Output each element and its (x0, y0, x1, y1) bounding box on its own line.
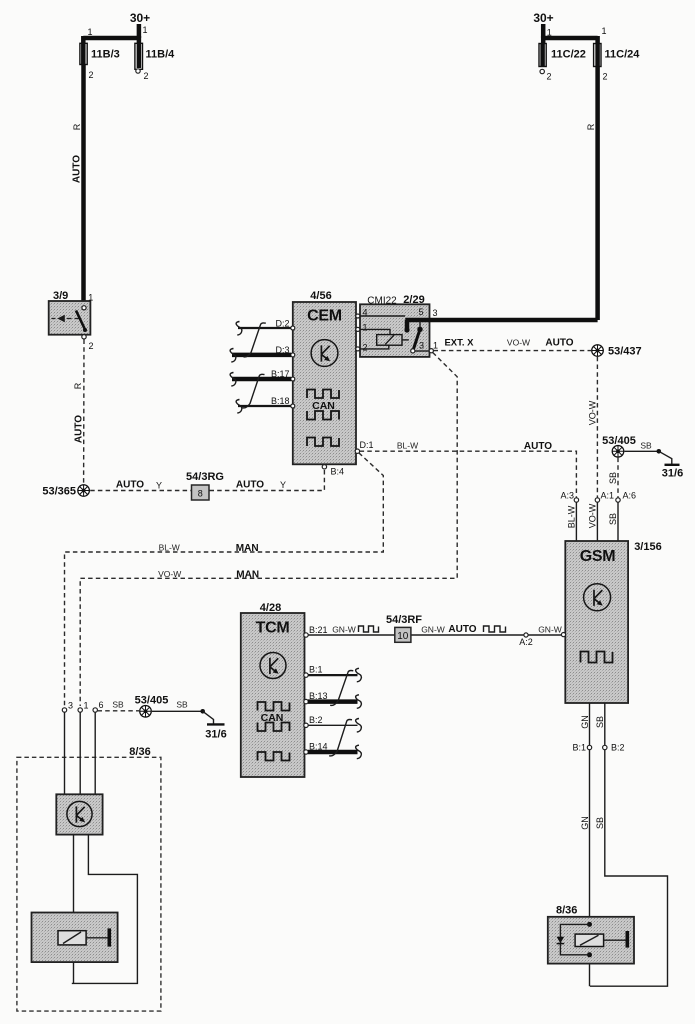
svg-text:8/36: 8/36 (556, 905, 577, 917)
power feed 30+ label (right) (533, 11, 553, 25)
svg-text:B:1: B:1 (572, 743, 586, 753)
svg-text:Y: Y (280, 480, 286, 490)
svg-text:R: R (73, 382, 83, 389)
wire VO-W MAN dashed from relay EXT. X via corner to connector pin 1 (80, 353, 457, 707)
label AUTO on dashed wire (73, 415, 84, 443)
svg-text:CEM: CEM (307, 308, 342, 325)
ground lead 31/6 (upper right) (659, 451, 683, 479)
svg-text:2: 2 (547, 72, 552, 82)
wire-end curl at B:2 (356, 719, 362, 733)
svg-text:GN: GN (580, 715, 590, 729)
relay coil (377, 335, 402, 346)
wire at CEM B:18 (238, 405, 291, 407)
connector pin 6 (to 8/36) (93, 700, 104, 712)
wire BL-W MAN dashed from CEM D:1 via corner to connector pin 3 (65, 453, 384, 706)
inline square wave symbol on B:21 wire (right) (484, 626, 506, 632)
relay fixed contact stub (terminal 5) (404, 320, 409, 333)
inline square wave symbol on B:21 wire (left) (359, 626, 379, 632)
solenoid plunger bar (right 8/36) (604, 931, 628, 948)
svg-text:VO-W: VO-W (158, 569, 181, 579)
solenoid coil terminal junction (top) (587, 922, 592, 927)
TCM control-unit symbol (circled K) (260, 653, 286, 679)
svg-text:3/156: 3/156 (634, 541, 662, 553)
svg-text:R: R (72, 123, 82, 130)
twisted-pair marker for D:2/D:3 (244, 323, 266, 357)
splice 53/405 (lower) (135, 695, 169, 718)
relay coil-armature link (402, 339, 409, 341)
TCM CAN square wave upper (258, 702, 290, 711)
wire stub into fuse 11B/3 (81, 36, 86, 44)
svg-text:1: 1 (84, 701, 89, 711)
svg-text:GN-W: GN-W (421, 624, 445, 634)
twisted-pair marker for B:1/B:13 (330, 671, 353, 706)
label GN-W (right of 54/3RF) (421, 624, 445, 634)
control module TCM body (241, 613, 305, 777)
svg-text:6: 6 (99, 700, 104, 710)
svg-text:30+: 30+ (533, 11, 553, 25)
wire GN-W from TCM B:21 to GSM A:2 (308, 634, 561, 636)
wire 30+ stub to bus (left) (137, 24, 142, 38)
svg-text:54/3RG: 54/3RG (186, 471, 224, 483)
svg-text:SB: SB (112, 700, 124, 710)
relay 2/29 body (360, 304, 430, 357)
svg-text:TCM: TCM (256, 620, 290, 637)
CEM pin B:4 (322, 465, 344, 477)
svg-text:AUTO: AUTO (524, 441, 552, 452)
svg-text:B:2: B:2 (309, 715, 323, 725)
svg-text:MAN: MAN (236, 570, 259, 581)
svg-text:5: 5 (419, 307, 424, 317)
wire at TCM B:1 (308, 674, 358, 676)
svg-text:A:1: A:1 (601, 491, 615, 501)
ground lead 31/6 (lower left) (203, 711, 227, 740)
GSM name text (580, 548, 616, 565)
power feed 30+ label (left) (130, 11, 150, 25)
diode (557, 937, 565, 944)
TCM pin B:13 (304, 691, 328, 704)
wire-end curl at B:13 (356, 695, 362, 709)
svg-text:B:4: B:4 (331, 467, 345, 477)
GSM pin A:3 (560, 491, 578, 503)
svg-text:SB: SB (595, 716, 605, 728)
switch 3/9 pin 2 (82, 335, 94, 351)
svg-text:SB: SB (640, 441, 652, 451)
svg-text:A:6: A:6 (623, 491, 637, 501)
svg-text:2: 2 (89, 70, 94, 80)
svg-text:3: 3 (68, 701, 73, 711)
svg-text:AUTO: AUTO (545, 338, 573, 349)
wire BL-W from A:3 into GSM (567, 502, 577, 541)
relay contact output line to pin 3 (415, 350, 430, 352)
wire-end curl at B:14 (356, 745, 362, 759)
GSM left pin circle (A:2) (561, 633, 565, 637)
wire stub into fuse 11C/22 (541, 36, 546, 44)
CEM name text (307, 308, 342, 325)
wire at TCM B:13 (thick) (308, 699, 358, 704)
wire AUTO Y dashed from 54/3RG to CEM B:4 (210, 470, 325, 491)
label GN-W (at GSM) (538, 624, 562, 634)
control module GSM 3/156 designator (634, 541, 662, 553)
svg-text:4: 4 (363, 308, 368, 318)
wire GN from B:1 down to solenoid 8/36 (580, 750, 590, 987)
switch 3/9 actuator arrow (52, 315, 79, 322)
svg-text:SB: SB (595, 817, 605, 829)
wire EXT. X VO-W AUTO dashed to splice 53/437 (434, 337, 592, 350)
connector 54/3RG (186, 471, 224, 500)
label GN-W (left of 54/3RF) (332, 624, 356, 634)
shifter module 8/36 designator (left) (129, 746, 150, 758)
wire at CEM D:3 (thick) (232, 353, 291, 358)
svg-text:AUTO: AUTO (73, 415, 84, 443)
svg-text:1: 1 (547, 28, 552, 38)
label R on left feed wire (72, 123, 82, 130)
GSM pin A:1 (595, 491, 614, 503)
wire SB from GSM to pin B:2 (595, 703, 605, 745)
junction dot at ground lead (upper right) (657, 449, 662, 454)
junction dot at ground lead (200, 709, 205, 714)
wire SB from B:2 down and around to solenoid 8/36 (590, 750, 668, 987)
svg-text:Y: Y (156, 480, 162, 490)
svg-text:11B/3: 11B/3 (91, 48, 120, 60)
svg-text:SB: SB (608, 472, 618, 484)
svg-text:10: 10 (397, 631, 409, 642)
svg-text:1: 1 (602, 26, 607, 36)
control module CEM 4/56 designator (310, 290, 331, 302)
TCM square wave lower (258, 752, 290, 761)
relay external pin numbers (433, 308, 439, 351)
TCM name text (256, 620, 290, 637)
svg-text:11C/24: 11C/24 (605, 49, 641, 61)
CEM CAN square wave upper (307, 390, 339, 399)
svg-text:GN-W: GN-W (538, 624, 562, 634)
solenoid coil (right 8/36) (575, 934, 604, 946)
CEM control-unit symbol (circled K) (311, 340, 338, 367)
CEM CAN label (312, 400, 335, 412)
svg-text:2: 2 (363, 343, 368, 353)
connector pin 1 (to 8/36) (78, 701, 89, 713)
svg-text:3: 3 (433, 308, 438, 318)
svg-text:53/437: 53/437 (608, 346, 642, 358)
shift lock plunger bar (86, 928, 109, 946)
shift lock solenoid box (32, 913, 118, 963)
svg-text:GN: GN (580, 816, 590, 830)
svg-text:53/365: 53/365 (42, 486, 76, 498)
svg-text:BL-W: BL-W (397, 441, 418, 451)
solenoid 8/36 body (right) (548, 917, 634, 964)
twisted-pair marker for B:2/B:14 (329, 720, 352, 756)
svg-text:BL-W: BL-W (567, 505, 577, 528)
svg-text:AUTO: AUTO (448, 624, 476, 635)
GSM control-unit symbol (circled K) (584, 584, 611, 611)
svg-text:VO-W: VO-W (587, 400, 597, 425)
svg-text:8/36: 8/36 (129, 746, 150, 758)
wire R AUTO dashed from 3/9 pin 2 to splice 53/365 (83, 340, 85, 485)
svg-text:4/56: 4/56 (310, 290, 331, 302)
svg-text:MAN: MAN (236, 543, 259, 554)
shifter module 8/36 dashed enclosure (17, 757, 161, 1011)
svg-text:AUTO: AUTO (116, 479, 144, 490)
wire SB dashed from 53/405 down to GSM A:6 (608, 458, 618, 498)
relay 2/29 designator (403, 294, 424, 306)
svg-text:1: 1 (363, 323, 368, 333)
CEM pin D:3 (275, 345, 294, 357)
svg-text:B:1: B:1 (309, 665, 323, 675)
solenoid 8/36 designator (right) (556, 905, 577, 917)
wire BL-W AUTO dashed from CEM D:1 to GSM A:3 (360, 441, 577, 499)
svg-text:B:21: B:21 (309, 625, 328, 635)
label AUTO on B:21 wire (448, 624, 476, 635)
relay pin labels (363, 307, 425, 353)
svg-text:2: 2 (144, 71, 149, 81)
shifter control unit box (circled K) (56, 794, 102, 834)
TCM CAN square wave middle (258, 723, 290, 732)
wire SB from 53/405 to ground junction (152, 700, 203, 712)
svg-text:1: 1 (88, 27, 93, 37)
svg-text:11C/22: 11C/22 (551, 49, 586, 61)
control module GSM body (565, 541, 628, 703)
wire VO-W from A:1 into GSM (588, 502, 598, 541)
TCM pin B:21 (304, 625, 328, 637)
relay 2/29 connector name CMI22 (367, 296, 397, 307)
svg-text:2: 2 (603, 72, 608, 82)
svg-text:B:18: B:18 (271, 396, 290, 406)
splice 53/365 (42, 485, 89, 498)
connector 54/3RF (386, 614, 422, 643)
relay coil feed wire from pin 1 (360, 329, 390, 334)
TCM pin B:2 (304, 715, 323, 728)
svg-text:A:3: A:3 (560, 491, 574, 501)
wire VO-W dashed from 53/437 down to GSM A:1 (587, 357, 597, 498)
wire R AUTO from fuse 11B/3 down to switch 3/9 (81, 64, 86, 306)
connector pin 3 (to 8/36) (62, 701, 73, 713)
svg-text:VO-W: VO-W (588, 503, 598, 528)
CEM CAN square wave middle (307, 411, 339, 420)
wire at TCM B:2 (308, 724, 358, 726)
wire loop from shifter control unit right output (72, 835, 138, 984)
transmission control module TCM 4/28 designator (260, 602, 281, 614)
svg-text:8: 8 (198, 488, 203, 498)
label R on right feed wire (586, 123, 596, 130)
svg-text:A:2: A:2 (519, 637, 533, 647)
wire at CEM B:17 (thick) (232, 377, 291, 382)
label R on dashed wire (73, 382, 83, 389)
svg-text:D:1: D:1 (360, 440, 374, 450)
wire 30+ horizontal bus (right) (543, 36, 597, 41)
wire SB from A:6 into GSM (608, 502, 618, 541)
wire 30+ stub to bus (right) (541, 24, 546, 38)
wire at CEM D:2 (238, 327, 291, 329)
wire AUTO Y dashed from 53/365 to connector 54/3RG (90, 479, 191, 490)
wires from pins 3,1,6 into shifter control unit (65, 712, 96, 794)
svg-text:2: 2 (89, 341, 94, 351)
TCM pin B:1 (304, 665, 323, 678)
wire SB dashed from pin 6 to splice 53/405 (lower) (98, 700, 140, 711)
TCM pin B:14 (304, 741, 328, 754)
CEM pin D:2 (275, 319, 294, 331)
svg-text:B:2: B:2 (611, 743, 625, 753)
fuse 11B/3 (80, 27, 120, 80)
switch 3/9 pin 1 (82, 293, 93, 310)
svg-text:1: 1 (433, 341, 438, 351)
relay thick output bus to fuse 11C/24 wire (405, 318, 597, 323)
svg-text:SB: SB (176, 700, 188, 710)
TCM CAN label (261, 712, 284, 724)
svg-text:31/6: 31/6 (205, 729, 226, 741)
CEM pin B:17 (271, 369, 295, 381)
switch 3/9 designator (53, 290, 68, 302)
svg-text:EXT. X: EXT. X (444, 337, 474, 348)
wire from shifter control unit to solenoid coil (73, 835, 75, 984)
wire R from fuse 11C/24 down to relay feed (595, 43, 600, 320)
wire-end curl at D:2 (236, 322, 242, 336)
GSM pin A:6 (616, 491, 636, 503)
shift lock solenoid coil (58, 931, 86, 945)
svg-text:54/3RF: 54/3RF (386, 614, 422, 626)
wire-end curl at B:18 (236, 400, 242, 414)
svg-text:GN-W: GN-W (332, 624, 356, 634)
GSM square wave symbol (581, 652, 613, 663)
twisted-pair marker for B:17/B:18 (243, 374, 265, 408)
relay internal terminal row line (pin 4 to contact) (360, 315, 405, 317)
relay coil return wire from pin 2 (360, 345, 389, 349)
svg-text:1: 1 (143, 25, 148, 35)
svg-text:11B/4: 11B/4 (146, 48, 176, 60)
GSM pin B:1 (572, 743, 591, 753)
wire stub into fuse 11B/4 (137, 36, 142, 44)
fuse 11C/24 (594, 26, 641, 82)
CEM pin D:1 (355, 440, 373, 453)
svg-text:3: 3 (419, 341, 424, 351)
CEM square wave lower (307, 438, 339, 447)
pin 2 connector circle of fuse 11C/22 (540, 69, 544, 73)
svg-text:53/405: 53/405 (602, 435, 636, 447)
relay output pin circle (EXT. X) (429, 349, 433, 353)
svg-text:VO-W: VO-W (507, 338, 530, 348)
svg-text:30+: 30+ (130, 11, 150, 25)
GSM pin B:2 (603, 743, 625, 753)
svg-text:31/6: 31/6 (662, 468, 683, 480)
connector pin A:2 on GN-W wire (519, 633, 533, 647)
svg-text:BL-W: BL-W (159, 542, 180, 552)
svg-text:AUTO: AUTO (72, 155, 83, 183)
wire at TCM B:14 (thick) (308, 750, 358, 755)
fuse 11C/22 (539, 28, 586, 82)
pin 2 connector circle of fuse 11B/4 (136, 69, 140, 73)
control module CEM body (293, 302, 356, 464)
switch 3/9 arm (76, 311, 87, 333)
wire 30+ horizontal bus (left) (83, 36, 139, 41)
label AUTO on left feed wire (72, 155, 83, 183)
svg-text:R: R (586, 123, 596, 130)
fuse 11B/4 (135, 25, 175, 81)
CEM pin B:18 (271, 396, 295, 408)
svg-text:GSM: GSM (580, 548, 616, 565)
splice 53/437 (592, 345, 642, 358)
svg-text:1: 1 (88, 293, 93, 303)
wire-end curl at B:1 (356, 668, 362, 682)
relay armature (411, 330, 420, 353)
flyback diode loop (560, 924, 589, 954)
wire SB from 53/405 to ground junction (upper right) (625, 441, 659, 452)
svg-text:SB: SB (608, 513, 618, 525)
wire stub into fuse 11C/24 (595, 36, 600, 44)
solenoid coil terminal junction (bottom) (587, 952, 592, 957)
CEM-to-relay pin circles (356, 314, 360, 351)
wire GN from GSM to pin B:1 (580, 703, 590, 745)
splice 53/405 (upper right) (602, 435, 636, 457)
wire-end curl at B:17 (230, 373, 236, 387)
switch 3/9 body (49, 301, 91, 335)
svg-text:AUTO: AUTO (236, 479, 264, 490)
wire-end curl at D:3 (230, 349, 236, 363)
relay armature feed stub (417, 321, 422, 332)
svg-text:53/405: 53/405 (135, 695, 169, 707)
